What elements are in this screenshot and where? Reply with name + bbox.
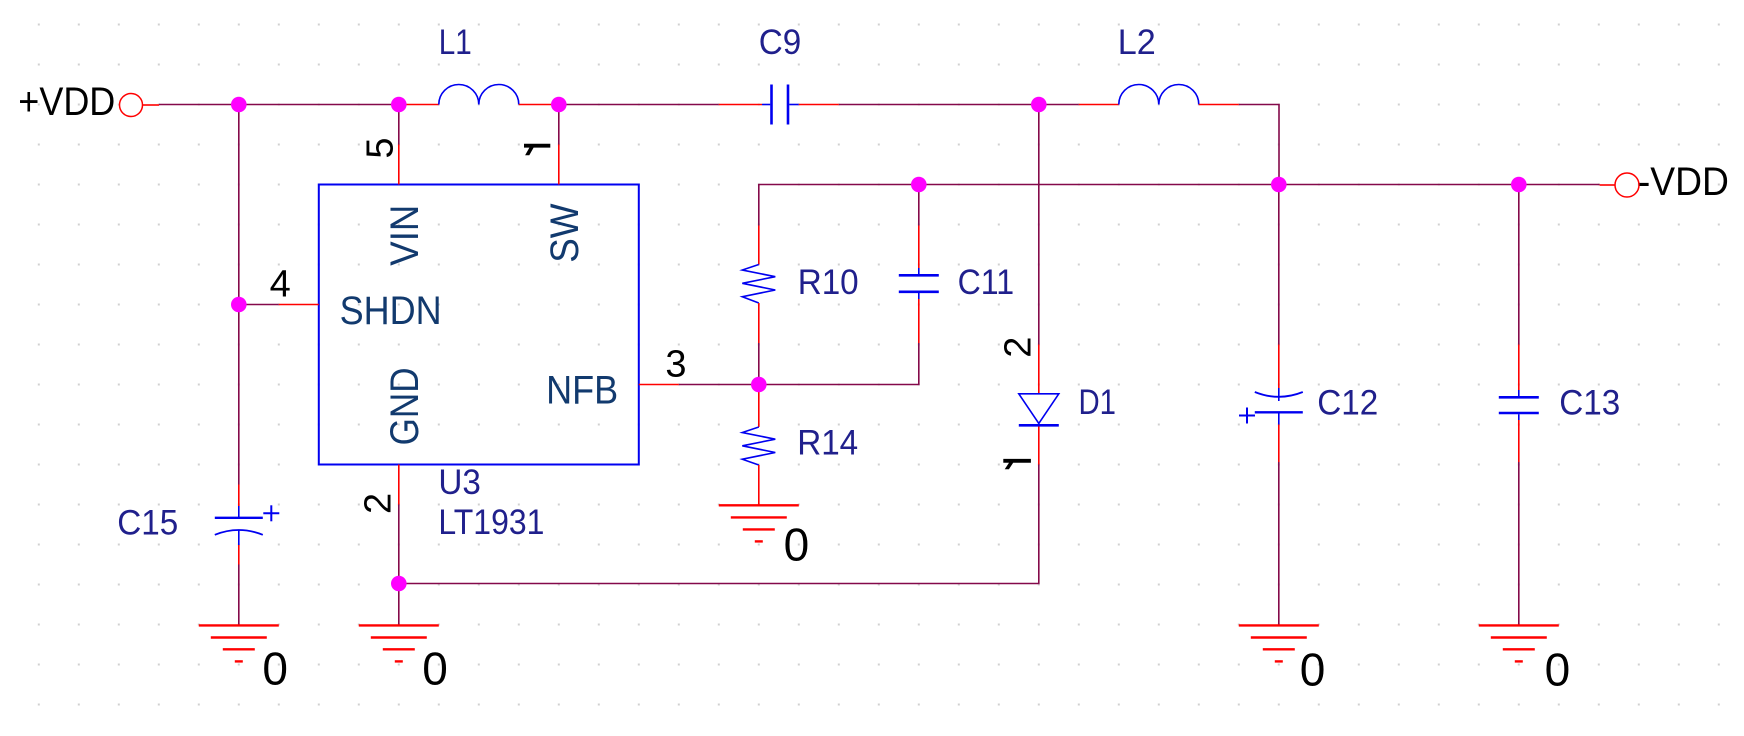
ground R14 — [719, 505, 809, 570]
junction node NFB — [751, 377, 767, 393]
svg-text:L2: L2 — [1118, 23, 1156, 62]
svg-text:0: 0 — [1300, 644, 1326, 696]
svg-text:0: 0 — [422, 643, 448, 695]
wire -VDD rail — [758, 184, 1600, 186]
svg-text:LT1931: LT1931 — [438, 503, 544, 542]
svg-text:VIN: VIN — [383, 205, 427, 266]
pin 3 NFB — [546, 343, 686, 412]
wire C13 bottom — [1518, 462, 1520, 625]
capacitor C11 — [899, 226, 1014, 344]
ground C13 — [1479, 625, 1570, 695]
svg-text:3: 3 — [665, 343, 686, 385]
capacitor C15 polarized — [117, 485, 279, 565]
wire +VDD rail — [159, 104, 399, 106]
svg-text:R14: R14 — [797, 423, 858, 462]
port -VDD — [1600, 160, 1729, 204]
wire NFB to node — [679, 384, 759, 386]
resistor R10 — [742, 226, 858, 344]
svg-text:4: 4 — [270, 263, 291, 305]
pin 4 SHDN — [270, 263, 442, 333]
svg-text:D1: D1 — [1079, 383, 1117, 422]
svg-text:R10: R10 — [798, 263, 859, 302]
wire C12 top — [1278, 185, 1280, 345]
svg-text:SW: SW — [543, 203, 587, 263]
svg-text:C15: C15 — [117, 503, 178, 542]
wire VIN column — [398, 105, 400, 145]
svg-text:2: 2 — [998, 337, 1040, 358]
junction node C11 top — [911, 177, 927, 193]
svg-text:+VDD: +VDD — [18, 80, 115, 124]
junction node GND — [391, 576, 407, 592]
wire C15 column — [238, 105, 240, 485]
svg-text:2: 2 — [357, 493, 399, 514]
wire SW rail segment — [559, 104, 719, 106]
svg-text:SHDN: SHDN — [340, 289, 442, 333]
port +VDD — [18, 80, 159, 124]
wire L2 to corner down to -VDD rail — [1239, 105, 1279, 186]
junction node VIN — [391, 97, 407, 113]
wire C13 top — [1518, 185, 1520, 345]
junction node C13 top — [1511, 177, 1527, 193]
junction node A — [231, 97, 247, 113]
wire D1 bottom to GND junction — [399, 465, 1039, 584]
wire C11 bottom to NFB node — [759, 343, 919, 385]
svg-text:5: 5 — [359, 137, 401, 158]
pin 2 GND — [357, 367, 427, 514]
inductor L1 — [399, 23, 559, 104]
svg-text:U3: U3 — [438, 463, 481, 502]
junction node SHDN — [231, 297, 247, 313]
resistor R14 — [742, 385, 858, 505]
svg-text:C11: C11 — [958, 263, 1015, 302]
ground GND pin — [359, 625, 448, 694]
capacitor C9 — [719, 23, 839, 125]
svg-text:NFB: NFB — [546, 369, 618, 413]
wire GND column — [398, 505, 400, 626]
svg-text:-VDD: -VDD — [1638, 160, 1729, 204]
svg-text:0: 0 — [784, 518, 810, 570]
junction node SW — [551, 97, 567, 113]
wire SHDN to junction — [239, 304, 279, 306]
wire C15 bottom to ground — [238, 565, 240, 626]
wire C11 top — [918, 185, 920, 226]
diode D1 — [998, 337, 1117, 470]
svg-text:0: 0 — [262, 643, 288, 695]
svg-text:C13: C13 — [1559, 383, 1620, 422]
capacitor C13 — [1499, 345, 1621, 463]
wire C9 to L2 — [839, 104, 1079, 106]
inductor L2 — [1079, 23, 1239, 105]
pin 5 VIN — [359, 137, 427, 265]
svg-text:C9: C9 — [759, 23, 802, 62]
junction node C12 top — [1271, 177, 1287, 193]
svg-text:GND: GND — [383, 367, 427, 445]
ground C15 — [199, 625, 288, 694]
ground C12 — [1239, 625, 1326, 695]
wire SW column — [558, 105, 560, 145]
wire R10 bottom — [758, 343, 760, 385]
IC U3 LT1931 box — [319, 185, 639, 543]
svg-text:C12: C12 — [1317, 383, 1378, 422]
svg-text:0: 0 — [1545, 644, 1571, 696]
capacitor C12 polarized — [1239, 345, 1378, 463]
wire D1 top column — [1038, 105, 1040, 345]
svg-text:L1: L1 — [439, 23, 472, 62]
wire C12 bottom — [1278, 462, 1280, 625]
wire R10 top — [758, 185, 760, 226]
pin 1 SW — [524, 144, 587, 263]
junction node D1 top — [1031, 97, 1047, 113]
